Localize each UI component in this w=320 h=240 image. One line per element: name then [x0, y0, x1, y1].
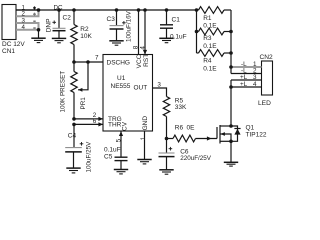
wire C3 top	[116, 10, 118, 26]
resistor R5	[163, 97, 169, 139]
svg-text:100uF/16V: 100uF/16V	[126, 10, 133, 42]
pin number 1	[140, 136, 147, 140]
label R2	[80, 26, 89, 33]
svg-text:DSCHG: DSCHG	[107, 59, 130, 66]
CN2 pin 2 wire	[231, 73, 262, 75]
wire C5 bottom	[120, 161, 122, 170]
CN2 pin number 2	[253, 68, 257, 75]
junction pin7/R2	[72, 60, 76, 64]
junction R2/rail	[72, 8, 76, 12]
svg-text:1: 1	[140, 136, 147, 140]
label C4	[68, 133, 77, 140]
resistor R4	[197, 50, 232, 57]
ground C6	[159, 170, 173, 174]
label 33K	[175, 104, 187, 111]
label -L pin1	[241, 61, 247, 68]
svg-text:7: 7	[95, 54, 99, 61]
junction pin4/vertical	[229, 85, 233, 89]
svg-text:10K: 10K	[80, 33, 92, 40]
wire C2 top	[58, 10, 60, 28]
CN1 pin 1 wire	[16, 9, 39, 11]
label DSCHG	[107, 59, 130, 66]
CN2 pin number 1	[253, 61, 257, 68]
wire right ladder vertical	[230, 10, 232, 74]
svg-text:Q1: Q1	[246, 124, 255, 131]
Q1 gate arrow	[207, 136, 212, 140]
capacitor C5	[115, 157, 128, 160]
resistor R1	[197, 7, 232, 14]
node DC label	[54, 5, 64, 12]
wire C2 bottom	[58, 31, 60, 39]
svg-text:220uF/25V: 220uF/25V	[180, 155, 212, 162]
label CN2	[260, 54, 274, 61]
Q1 source wire	[220, 140, 231, 142]
label C3	[107, 16, 116, 23]
wire C1 bottom	[166, 28, 168, 38]
label PR1	[80, 97, 87, 110]
label 100uF/16V	[126, 10, 133, 42]
junction pins 3-4	[37, 28, 41, 32]
U1 pin 4 RST wire	[144, 10, 146, 55]
transistor Q1 gate bar	[216, 127, 218, 139]
wire C3 bottom	[116, 29, 118, 41]
svg-text:C3: C3	[107, 16, 116, 23]
svg-text:TIP122: TIP122	[246, 131, 267, 138]
junction R3 left	[195, 30, 199, 34]
junction C3/rail	[115, 8, 119, 12]
svg-text:4: 4	[253, 81, 257, 88]
svg-text:6: 6	[93, 118, 97, 125]
CN1 pin number 1	[22, 4, 26, 11]
plus mark pin1	[33, 6, 36, 9]
minus mark pin4	[33, 27, 35, 29]
wire pin6 to C4	[73, 124, 75, 147]
capacitor C2	[52, 21, 65, 31]
svg-text:100uF/25V: 100uF/25V	[86, 141, 93, 173]
junction pin8/rail	[137, 8, 141, 12]
label R4 value 0.1E	[203, 66, 217, 73]
ground C4	[66, 168, 80, 173]
U1 pin 3 wire	[153, 88, 167, 97]
svg-text:DNP: DNP	[45, 19, 52, 33]
capacitor C3	[110, 21, 126, 29]
ground C3	[109, 41, 123, 45]
svg-text:R3: R3	[203, 35, 212, 42]
label 220uF/25V	[180, 155, 212, 162]
svg-text:OUT: OUT	[134, 84, 148, 91]
label R4	[203, 58, 212, 65]
U1 pin 5 wire	[119, 131, 123, 157]
junction ladder/pin1	[229, 65, 233, 69]
capacitor C4	[65, 142, 83, 152]
label NE555	[111, 83, 131, 90]
svg-text:GND: GND	[142, 116, 149, 131]
CN2 pin 1 wire	[232, 66, 262, 68]
U1 pin 1 wire	[144, 131, 146, 159]
wire Q1 source to ground	[230, 141, 232, 162]
svg-text:3: 3	[157, 81, 161, 88]
pin number 4	[139, 46, 146, 50]
pin number 3	[157, 81, 161, 88]
junction pins 1-2	[37, 8, 41, 12]
label GND	[142, 116, 149, 131]
label 10K	[80, 33, 92, 40]
wire C1 top	[166, 10, 168, 25]
svg-text:+L: +L	[240, 74, 248, 81]
svg-text:5: 5	[115, 138, 122, 142]
CN1 pin number 4	[22, 24, 26, 31]
ground CN1	[31, 38, 45, 42]
connector CN1 body	[2, 5, 16, 40]
wire gate to C6	[166, 139, 168, 154]
CN2 pin number 3	[253, 74, 257, 81]
label VCC	[136, 54, 143, 68]
junction source	[229, 140, 233, 144]
label C6	[180, 149, 189, 156]
label +L pin3	[240, 74, 248, 81]
label R3 value 0.1E	[203, 43, 217, 50]
capacitor C1	[160, 25, 173, 28]
svg-text:PR1: PR1	[80, 97, 87, 110]
svg-text:3: 3	[253, 74, 257, 81]
label R5	[175, 98, 184, 105]
svg-text:CN2: CN2	[260, 54, 274, 61]
junction drain	[229, 124, 233, 128]
CN2 pin 4 wire	[231, 86, 262, 88]
wire C6 bottom	[166, 157, 168, 170]
svg-text:4: 4	[139, 46, 146, 50]
U1 pin 6 wire	[74, 122, 103, 126]
svg-text:THR: THR	[108, 122, 122, 129]
svg-text:0.1E: 0.1E	[203, 43, 217, 50]
svg-text:+L: +L	[240, 81, 248, 88]
pin 4 arrow	[143, 50, 147, 55]
label R1 value 0.1E	[203, 23, 217, 30]
label 0.1uF	[170, 34, 187, 41]
label R3	[203, 35, 212, 42]
capacitor C6	[159, 147, 175, 157]
plus mark pin2	[33, 13, 36, 16]
U1 pin 8 VCC wire	[138, 10, 140, 55]
label OUT	[134, 84, 148, 91]
pin number 7	[95, 54, 99, 61]
CN2 pin 3 wire	[231, 79, 262, 81]
label R1	[203, 15, 212, 22]
svg-text:R1: R1	[203, 15, 212, 22]
label +L pin4	[240, 81, 248, 88]
ground C5	[114, 170, 128, 174]
label -L pin2	[241, 68, 247, 75]
potentiometer PR1	[71, 62, 77, 119]
junction pin7/wiper	[86, 60, 90, 64]
wire R2 bottom lead	[73, 45, 75, 63]
junction gate node	[165, 137, 169, 141]
IC U1 NE555 body	[103, 55, 153, 132]
ground Q1	[224, 162, 238, 166]
svg-text:0.1E: 0.1E	[203, 66, 217, 73]
label C1	[172, 16, 181, 23]
resistor R3	[197, 28, 232, 35]
svg-text:R6: R6	[175, 124, 184, 131]
U1 pin 7 wire	[74, 61, 103, 63]
PR1 wiper	[78, 62, 88, 92]
wire LED- vertical	[230, 80, 232, 126]
wire CN1 to ground	[38, 30, 40, 38]
connector CN2 body	[262, 61, 273, 95]
label Q1	[246, 124, 255, 131]
svg-text:CN1: CN1	[2, 48, 15, 55]
junction pin2	[72, 117, 76, 121]
CN1 pin 4 wire	[16, 29, 37, 31]
Q1 drain wire	[220, 125, 231, 127]
svg-text:NE555: NE555	[111, 83, 131, 90]
svg-text:C4: C4	[68, 133, 77, 140]
svg-text:VCC: VCC	[136, 54, 143, 68]
svg-text:0E: 0E	[187, 124, 196, 131]
Q1 body connection	[221, 132, 232, 141]
resistor R6	[167, 135, 218, 142]
label U1	[117, 75, 126, 82]
junction R3 right	[229, 30, 233, 34]
label DNP	[45, 19, 52, 33]
junction C1/rail	[165, 8, 169, 12]
wire R2 top lead	[73, 10, 75, 25]
pin number 5	[115, 138, 122, 142]
pin number 2	[93, 112, 97, 119]
label 100K PRESET	[59, 71, 66, 113]
CN1 pin 2 wire	[16, 11, 39, 16]
ground C1	[159, 38, 173, 42]
label 100uF/25V	[86, 141, 93, 173]
junction R4 right	[229, 51, 233, 55]
label LED	[258, 100, 271, 107]
svg-text:C2: C2	[63, 14, 72, 21]
label C5	[104, 154, 113, 161]
label C2	[63, 14, 72, 21]
svg-text:0.1uF: 0.1uF	[170, 34, 187, 41]
svg-text:LED: LED	[258, 100, 271, 107]
CN2 pin number 4	[253, 81, 257, 88]
svg-text:U1: U1	[117, 75, 126, 82]
label CN1	[2, 48, 15, 55]
svg-text:RST: RST	[143, 54, 150, 67]
CN1 pin number 3	[22, 17, 26, 24]
label DC 12V	[2, 41, 25, 48]
Q1 body diode	[231, 126, 241, 141]
svg-text:0.1E: 0.1E	[203, 23, 217, 30]
label CV	[122, 121, 129, 131]
CN1 pin number 2	[22, 11, 26, 18]
junction C2/rail	[57, 8, 61, 12]
svg-text:33K: 33K	[175, 104, 187, 111]
svg-text:CV: CV	[122, 121, 129, 131]
ground C2	[52, 38, 66, 42]
label 0.1uF	[104, 146, 121, 153]
label R6 value 0E	[187, 124, 196, 131]
CN1 pin 3 wire	[16, 23, 39, 29]
label THR	[108, 122, 122, 129]
Q1 channel bar	[219, 125, 221, 144]
svg-text:C1: C1	[172, 16, 181, 23]
junction rail/R-ladder	[195, 8, 199, 12]
junction pin6	[72, 123, 76, 127]
U1 pin 2 wire	[74, 117, 103, 121]
svg-text:100K PRESET: 100K PRESET	[59, 71, 66, 113]
svg-text:0.1uF: 0.1uF	[104, 146, 121, 153]
svg-text:R4: R4	[203, 58, 212, 65]
wire C4 bottom	[73, 152, 75, 168]
resistor R2	[71, 25, 77, 45]
pin number 8	[133, 45, 140, 49]
wire left ladder vertical	[196, 10, 198, 53]
label R6	[175, 124, 184, 131]
svg-text:C5: C5	[104, 154, 113, 161]
label TIP122	[246, 131, 267, 138]
junction pin4/rail	[143, 8, 147, 12]
svg-text:4: 4	[22, 24, 26, 31]
minus mark pin3	[33, 20, 35, 22]
label TRG	[108, 116, 122, 123]
ground U1 pin1	[137, 160, 151, 164]
wire DC+ rail	[16, 9, 197, 11]
label RST	[143, 54, 150, 67]
pin number 6	[93, 118, 97, 125]
